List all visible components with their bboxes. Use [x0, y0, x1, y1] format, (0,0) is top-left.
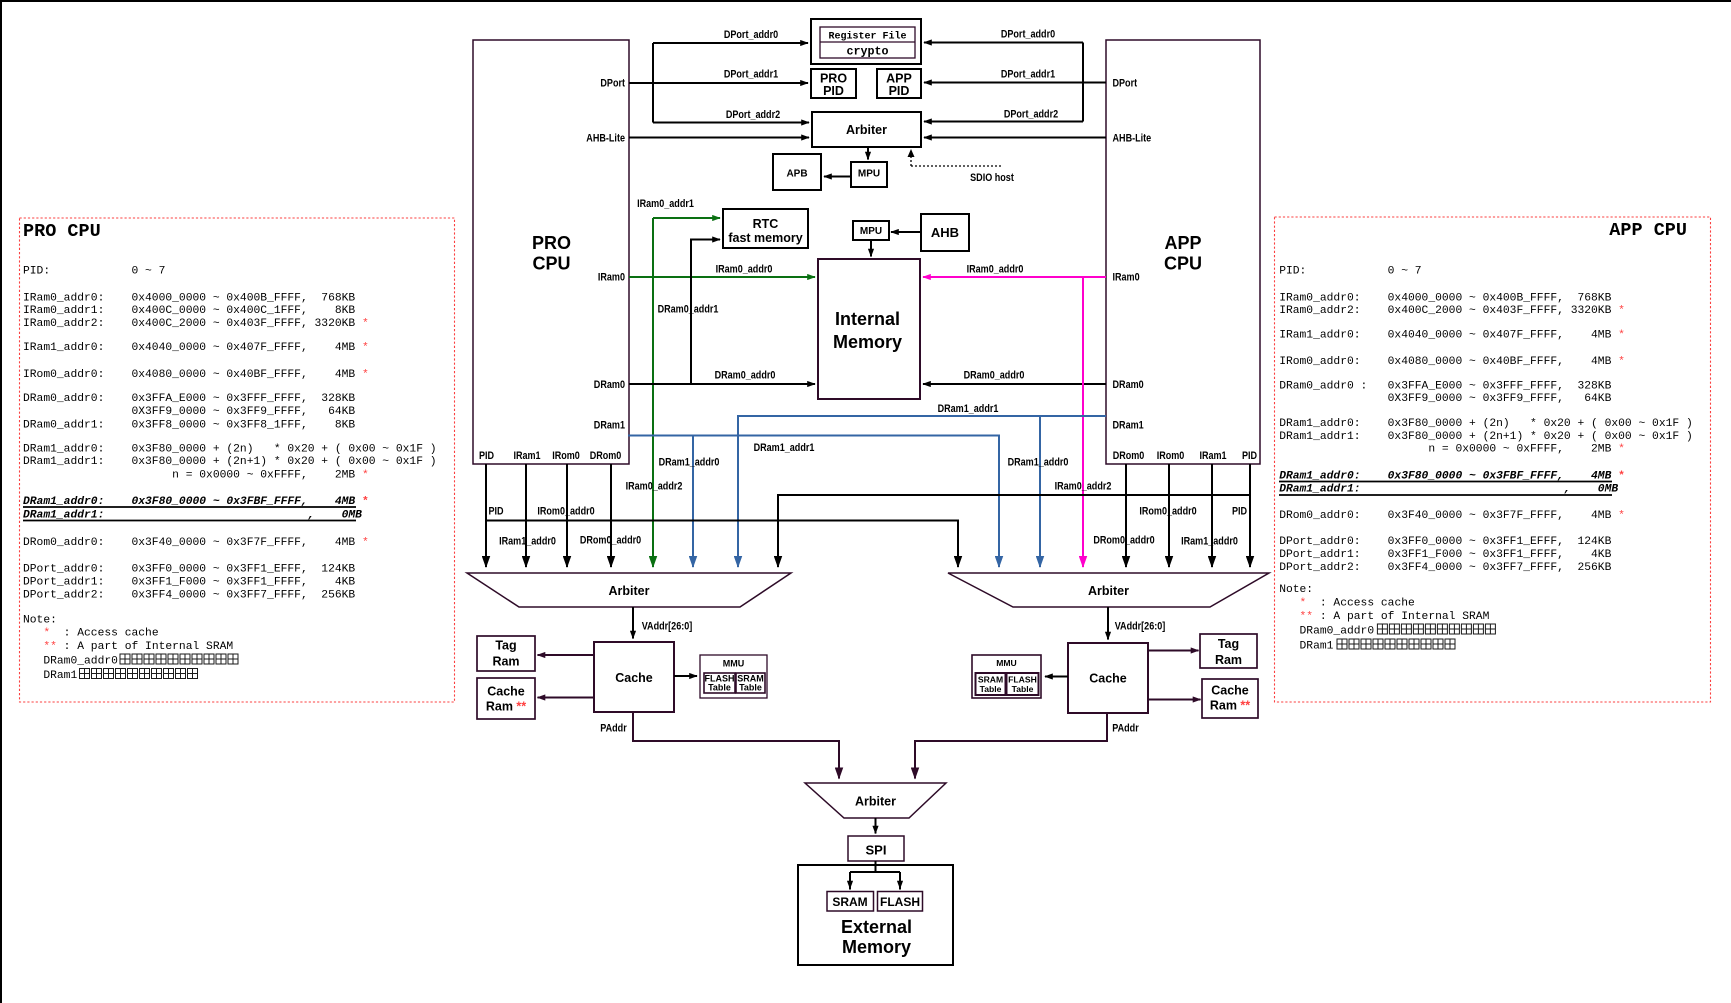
wire Arbiter to MPU — [867, 147, 869, 160]
FLASH block — [878, 892, 923, 912]
svg-text:IRam0_addr2: 0x400C_2000 ~: IRam0_addr2: 0x400C_2000 ~ 0x403F_FFFF, … — [23, 318, 369, 330]
svg-text:Memory: Memory — [833, 332, 902, 352]
svg-text:APB: APB — [786, 169, 807, 180]
svg-text:Cache: Cache — [487, 685, 525, 699]
svg-text:IRom0: IRom0 — [1157, 450, 1185, 462]
svg-text:0X3FF9_0000 ~ 0x3FF9_FFFF, 6: 0X3FF9_0000 ~ 0x3FF9_FFFF, 64KB — [1279, 393, 1611, 405]
svg-text:DPort_addr2: DPort_addr2 — [1004, 109, 1058, 121]
svg-text:APP: APP — [1164, 233, 1201, 253]
svg-text:DRam1_addr1: DRam1_addr1 — [938, 403, 999, 415]
svg-text:PAddr: PAddr — [600, 723, 627, 735]
wire PID (APP) to right Arbiter — [1249, 464, 1251, 567]
svg-text:DRam1: DRam1 — [594, 420, 625, 432]
svg-text:Table: Table — [708, 683, 731, 693]
svg-text:PID: PID — [1242, 450, 1257, 462]
svg-text:crypto: crypto — [846, 45, 888, 59]
wire PAddr (right) to bottom Arbiter — [915, 713, 1107, 779]
svg-text:IRam0_addr2: IRam0_addr2 — [1055, 481, 1112, 493]
svg-text:PAddr: PAddr — [1112, 723, 1139, 735]
svg-text:IRam1_addr0: IRam1_addr0 — [499, 536, 556, 548]
svg-text:AHB-Lite: AHB-Lite — [1113, 133, 1152, 145]
svg-text:IRam0_addr2: IRam0_addr2 — [626, 481, 683, 493]
svg-text:DRom0_addr0: 0x3F40_0000 ~: DRom0_addr0: 0x3F40_0000 ~ 0x3F7F_FFFF, … — [23, 537, 369, 549]
svg-text:DPort_addr0: 0x3FF0_0000 ~: DPort_addr0: 0x3FF0_0000 ~ 0x3FF1_EFFF, … — [1279, 536, 1611, 548]
svg-text:DPort_addr2: 0x3FF4_0000 ~: DPort_addr2: 0x3FF4_0000 ~ 0x3FF7_FFFF, … — [23, 590, 355, 602]
svg-text:IRam0_addr0: 0x4000_0000 ~: IRam0_addr0: 0x4000_0000 ~ 0x400B_FFFF, … — [1279, 293, 1611, 305]
Cache Ram block (left) — [477, 678, 535, 719]
svg-text:MMU: MMU — [996, 658, 1017, 668]
wire MPU to APB — [824, 176, 851, 178]
svg-text:DRam0_addr0 : 0x3FFA_E000 ~: DRam0_addr0 : 0x3FFA_E000 ~ 0x3FFF_FFFF,… — [1279, 381, 1611, 393]
MMU block (right) — [972, 655, 1041, 698]
svg-text:AHB-Lite: AHB-Lite — [586, 133, 625, 145]
svg-text:PID: PID — [1232, 506, 1247, 518]
svg-text:DPort_addr1: 0x3FF1_F000 ~: DPort_addr1: 0x3FF1_F000 ~ 0x3FF1_FFFF, … — [1279, 549, 1611, 561]
svg-text:DPort_addr2: DPort_addr2 — [726, 109, 780, 121]
svg-text:IRam0_addr1: IRam0_addr1 — [637, 198, 694, 210]
svg-text:AHB: AHB — [931, 225, 959, 240]
left Arbiter (trapezoid) — [467, 573, 791, 607]
svg-text:DRam1_addr1: 0x3F80_0000 +: DRam1_addr1: 0x3F80_0000 + (2n+1) * 0x20… — [23, 456, 437, 468]
top Arbiter block — [812, 112, 921, 147]
Cache Ram block (right) — [1202, 679, 1258, 718]
wire IRam0_addr0 (APP, pink) to Internal Memory — [923, 276, 1106, 278]
svg-text:IRam1_addr0: 0x4040_0000 ~: IRam1_addr0: 0x4040_0000 ~ 0x407F_FFFF, … — [1279, 330, 1625, 342]
wire DRam0_addr0 (PRO) to Internal Memory — [629, 383, 815, 385]
wire bottom Arbiter to SPI — [875, 818, 877, 834]
svg-text:PID: PID — [823, 84, 844, 98]
wire DRam1_addr0 branch (blue) to left Arbiter — [692, 436, 694, 568]
svg-text:DRam1: DRam1 — [1113, 420, 1144, 432]
frame left edge — [0, 0, 2, 1003]
svg-text:PRO CPU: PRO CPU — [23, 221, 101, 242]
wire IRom0_addr0 (APP) to right Arbiter — [1168, 464, 1170, 567]
svg-text:* : Access cache: * : Access cache — [1279, 598, 1415, 610]
wire DPort_addr2 (APP) to Arbiter — [924, 121, 1083, 123]
wire DPort (APP) to APP PID — [924, 82, 1106, 84]
svg-text:MPU: MPU — [858, 169, 880, 180]
svg-text:Arbiter: Arbiter — [1088, 584, 1129, 598]
svg-text:Cache: Cache — [1089, 672, 1127, 686]
svg-text:0X3FF9_0000 ~ 0x3FF9_FFFF, 6: 0X3FF9_0000 ~ 0x3FF9_FFFF, 64KB — [23, 406, 355, 418]
wire DPort (PRO) to PRO PID — [629, 82, 808, 84]
svg-text:Ram: Ram — [1215, 653, 1242, 667]
wire DPort_addr2 (PRO) to Arbiter — [653, 122, 809, 124]
wire AHB-Lite (APP) to Arbiter — [924, 137, 1106, 139]
wire AHB-Lite (PRO) to Arbiter — [629, 137, 809, 139]
svg-text:IRom0_addr0: 0x4080_0000 ~: IRom0_addr0: 0x4080_0000 ~ 0x40BF_FFFF, … — [23, 369, 369, 381]
svg-text:DRam0_addr0: DRam0_addr0 — [1279, 626, 1374, 638]
svg-text:DRom0_addr0: DRom0_addr0 — [1093, 535, 1154, 547]
svg-text:n = 0x0000 ~ 0xFFFF, 2MB *: n = 0x0000 ~ 0xFFFF, 2MB * — [1279, 444, 1625, 456]
right Arbiter (trapezoid) — [948, 573, 1269, 607]
svg-text:Memory: Memory — [842, 937, 911, 957]
wire DRom0_addr0 (PRO) to left Arbiter — [610, 464, 612, 567]
svg-text:DRam1_addr1: 0x3F80_0000 +: DRam1_addr1: 0x3F80_0000 + (2n+1) * 0x20… — [1279, 431, 1693, 443]
svg-text:DPort_addr1: DPort_addr1 — [1001, 69, 1055, 81]
wire PID (PRO) cross-over to right Arbiter — [486, 521, 958, 568]
svg-text:Arbiter: Arbiter — [846, 123, 887, 137]
svg-text:IRam1_addr0: 0x4040_0000 ~: IRam1_addr0: 0x4040_0000 ~ 0x407F_FFFF, … — [23, 342, 369, 354]
svg-text:VAddr[26:0]: VAddr[26:0] — [1115, 621, 1166, 633]
svg-text:Table: Table — [1012, 684, 1034, 694]
MPU block (middle) — [853, 221, 889, 240]
PRO CPU address-map panel (dashed red border) — [20, 218, 455, 702]
svg-text:DRam1_addr0: 0x3F80_0000 +: DRam1_addr0: 0x3F80_0000 + (2n) * 0x20 +… — [23, 444, 437, 456]
svg-text:Note:: Note: — [1279, 584, 1313, 596]
svg-text:DRom0: DRom0 — [590, 450, 622, 462]
svg-text:PID: PID — [479, 450, 494, 462]
Cache block (left) — [594, 642, 674, 712]
wire IRam1_addr0 (PRO) to left Arbiter — [525, 464, 527, 567]
Cache block (right) — [1068, 643, 1148, 713]
wire DRam0_addr0 (APP) to Internal Memory — [923, 383, 1106, 385]
APP CPU block — [1106, 40, 1260, 464]
svg-text:VAddr[26:0]: VAddr[26:0] — [642, 621, 693, 633]
svg-text:MPU: MPU — [860, 226, 882, 237]
svg-text:Tag: Tag — [495, 639, 516, 653]
wire Cache to Tag Ram (left) — [538, 654, 595, 656]
svg-text:* : Access cache: * : Access cache — [23, 628, 159, 640]
wire PAddr (left) to bottom Arbiter — [633, 712, 839, 779]
wire IRam0_addr2 (APP, pink) to right Arbiter — [1082, 277, 1084, 567]
svg-text:PID: PID — [488, 506, 503, 518]
Internal Memory block — [818, 259, 920, 399]
svg-text:IRom0_addr0: 0x4080_0000 ~: IRom0_addr0: 0x4080_0000 ~ 0x40BF_FFFF, … — [1279, 356, 1625, 368]
svg-text:DRam0_addr1: 0x3FF8_0000 ~: DRam0_addr1: 0x3FF8_0000 ~ 0x3FF8_1FFF, … — [23, 420, 355, 432]
svg-text:IRam0_addr0: IRam0_addr0 — [967, 264, 1024, 276]
svg-text:FLASH: FLASH — [1008, 674, 1037, 684]
wire MPU to Internal Memory — [870, 240, 872, 257]
svg-text:Ram **: Ram ** — [1210, 699, 1250, 713]
svg-text:DRom0_addr0: DRom0_addr0 — [580, 535, 641, 547]
APP CPU address-map panel (dashed red border) — [1275, 217, 1711, 702]
RTC fast memory block — [723, 209, 808, 248]
AHB block — [921, 214, 969, 251]
wire IRom0_addr0 (PRO) to left Arbiter — [566, 464, 568, 567]
svg-text:IRam1: IRam1 — [513, 450, 540, 462]
APB block — [773, 154, 821, 190]
svg-text:DRam1_addr0: 0x3F80_0000 +: DRam1_addr0: 0x3F80_0000 + (2n) * 0x20 +… — [1279, 418, 1693, 430]
svg-text:MMU: MMU — [723, 659, 745, 669]
wire AHB to MPU — [891, 231, 921, 233]
svg-text:Table: Table — [980, 684, 1002, 694]
wire IRam1_addr0 (APP) to right Arbiter — [1211, 464, 1213, 567]
SPI block — [848, 836, 904, 861]
svg-text:PID: PID — [889, 84, 910, 98]
wire DRom0_addr0 (APP) to right Arbiter — [1125, 464, 1127, 567]
svg-text:SRAM: SRAM — [978, 674, 1003, 684]
svg-text:IRam0: IRam0 — [1113, 272, 1140, 284]
PRO PID block — [811, 69, 856, 98]
svg-text:External: External — [841, 917, 912, 937]
MPU block (top) — [851, 162, 887, 187]
wire VAddr right Arbiter to Cache — [1107, 607, 1109, 640]
wire DRam0_addr1 (PRO) to RTC fast memory — [691, 240, 720, 385]
svg-text:SRAM: SRAM — [832, 895, 867, 909]
svg-text:Arbiter: Arbiter — [609, 584, 650, 598]
svg-text:IRom0: IRom0 — [552, 450, 580, 462]
wire IRam0_addr1/addr2 vertical (green) to left Arbiter — [652, 218, 654, 567]
svg-text:Note:: Note: — [23, 615, 57, 627]
svg-text:fast memory: fast memory — [728, 231, 802, 245]
svg-text:** : A part of Internal SRAM: ** : A part of Internal SRAM — [1279, 611, 1489, 623]
wire PID (PRO) to left Arbiter — [485, 464, 487, 567]
wire PID (APP) cross-over to left Arbiter — [778, 495, 1250, 567]
frame top edge — [0, 0, 1731, 2]
svg-text:PID: 0 ~ 7: PID: 0 ~ 7 — [23, 266, 165, 278]
wire Cache to MMU (right) — [1045, 676, 1068, 678]
svg-text:DPort_addr1: 0x3FF1_F000 ~: DPort_addr1: 0x3FF1_F000 ~ 0x3FF1_FFFF, … — [23, 577, 355, 589]
wire SPI to SRAM/FLASH split — [850, 861, 900, 890]
svg-text:DRam1: DRam1 — [1279, 641, 1333, 653]
wire DPort_addr0 (PRO) to Register File — [653, 42, 808, 44]
wire Cache to Cache Ram (left) — [538, 697, 595, 699]
svg-text:DRom0_addr0: 0x3F40_0000 ~: DRom0_addr0: 0x3F40_0000 ~ 0x3F7F_FFFF, … — [1279, 510, 1625, 522]
svg-text:DRam0_addr0: DRam0_addr0 — [964, 370, 1025, 382]
wire DPort trunk (PRO) — [652, 43, 654, 123]
svg-text:CPU: CPU — [532, 254, 570, 274]
svg-text:Cache: Cache — [615, 671, 653, 685]
svg-text:DPort_addr2: 0x3FF4_0000 ~: DPort_addr2: 0x3FF4_0000 ~ 0x3FF7_FFFF, … — [1279, 562, 1611, 574]
svg-text:Arbiter: Arbiter — [855, 795, 896, 809]
svg-text:DRam1_addr0: DRam1_addr0 — [1008, 457, 1069, 469]
svg-text:IRam0_addr2: 0x400C_2000 ~: IRam0_addr2: 0x400C_2000 ~ 0x403F_FFFF, … — [1279, 305, 1625, 317]
svg-text:n = 0x0000 ~ 0xFFFF, 2MB *: n = 0x0000 ~ 0xFFFF, 2MB * — [23, 470, 369, 482]
svg-text:RTC: RTC — [753, 217, 779, 231]
svg-text:PID: 0 ~ 7: PID: 0 ~ 7 — [1279, 266, 1421, 278]
APP PID block — [877, 69, 921, 98]
svg-text:DRam1_addr1:: DRam1_addr1: , 0MB — [1279, 484, 1618, 496]
svg-text:Cache: Cache — [1211, 684, 1249, 698]
svg-text:CPU: CPU — [1164, 254, 1202, 274]
wire DRam1 (PRO, blue) to right Arbiter — [628, 436, 999, 568]
bottom Arbiter (trapezoid) — [805, 783, 946, 818]
svg-text:DRam0_addr1: DRam0_addr1 — [658, 304, 719, 316]
wire DRam1 (APP, blue) to left Arbiter — [738, 416, 1106, 567]
svg-text:DRam1_addr0: DRam1_addr0 — [659, 457, 720, 469]
Tag Ram block (left) — [477, 636, 535, 671]
wire SDIO host dashed vertical — [910, 150, 912, 166]
svg-text:DPort_addr0: 0x3FF0_0000 ~: DPort_addr0: 0x3FF0_0000 ~ 0x3FF1_EFFF, … — [23, 564, 355, 576]
svg-text:SDIO host: SDIO host — [970, 172, 1014, 184]
Register File / crypto block — [811, 19, 921, 64]
svg-text:DPort_addr0: DPort_addr0 — [724, 29, 778, 41]
svg-text:DRam0_addr0: DRam0_addr0 — [715, 370, 776, 382]
svg-text:IRam0: IRam0 — [598, 272, 625, 284]
wire DPort_addr0 (APP) to Register File — [924, 42, 1083, 44]
wire IRam0_addr1 (green) to RTC fast memory — [653, 217, 720, 219]
Tag Ram block (right) — [1200, 634, 1257, 668]
wire DPort trunk (APP) — [1082, 43, 1084, 122]
svg-text:Internal: Internal — [835, 309, 900, 329]
External Memory block — [798, 865, 953, 965]
wire Cache to Tag Ram (right) — [1148, 650, 1199, 652]
svg-text:DPort: DPort — [1113, 78, 1138, 90]
svg-text:Register File: Register File — [828, 31, 906, 43]
svg-text:IRam0_addr1: 0x400C_0000 ~: IRam0_addr1: 0x400C_0000 ~ 0x400C_1FFF, … — [23, 305, 355, 317]
wire Cache to MMU (left) — [674, 675, 697, 677]
svg-text:PRO: PRO — [532, 233, 571, 253]
svg-text:IRom0_addr0: IRom0_addr0 — [1139, 506, 1196, 518]
svg-text:FLASH: FLASH — [880, 895, 920, 909]
svg-text:DRam1: DRam1 — [23, 670, 77, 682]
svg-text:DPort_addr0: DPort_addr0 — [1001, 29, 1055, 41]
PRO CPU block — [473, 40, 629, 464]
wire DRam1_addr1 branch (blue) to right Arbiter — [1039, 416, 1041, 567]
svg-text:APP CPU: APP CPU — [1609, 220, 1687, 241]
svg-text:SPI: SPI — [866, 843, 887, 858]
svg-text:IRam1_addr0: IRam1_addr0 — [1181, 536, 1238, 548]
SRAM block — [827, 892, 874, 912]
svg-text:DRam0: DRam0 — [1113, 379, 1144, 391]
svg-text:IRam1: IRam1 — [1199, 450, 1226, 462]
svg-text:DRam0_addr0: DRam0_addr0 — [23, 656, 118, 668]
svg-text:IRam0_addr0: IRam0_addr0 — [716, 264, 773, 276]
svg-text:DPort: DPort — [600, 78, 625, 90]
svg-text:IRom0_addr0: IRom0_addr0 — [537, 506, 594, 518]
svg-text:DRam0: DRam0 — [594, 379, 625, 391]
svg-text:Ram: Ram — [492, 655, 519, 669]
wire Cache to Cache Ram (right) — [1148, 699, 1201, 701]
svg-text:Ram **: Ram ** — [486, 700, 526, 714]
svg-text:** : A part of Internal SRAM: ** : A part of Internal SRAM — [23, 641, 233, 653]
wire SDIO host dotted horizontal — [911, 165, 1001, 167]
svg-text:DRom0: DRom0 — [1113, 450, 1145, 462]
wire VAddr left Arbiter to Cache — [632, 607, 634, 639]
svg-text:DRam1_addr1: DRam1_addr1 — [754, 442, 815, 454]
svg-text:IRam0_addr0: 0x4000_0000 ~: IRam0_addr0: 0x4000_0000 ~ 0x400B_FFFF, … — [23, 293, 355, 305]
MMU block (left) — [700, 655, 767, 698]
svg-text:Table: Table — [739, 683, 762, 693]
svg-text:Tag: Tag — [1218, 637, 1239, 651]
svg-text:DRam0_addr0: 0x3FFA_E000 ~: DRam0_addr0: 0x3FFA_E000 ~ 0x3FFF_FFFF, … — [23, 393, 355, 405]
wire IRam0_addr0 (PRO, green) to Internal Memory — [629, 276, 815, 278]
svg-text:DPort_addr1: DPort_addr1 — [724, 69, 778, 81]
